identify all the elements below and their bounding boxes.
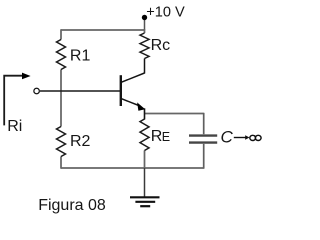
wire bottom rail [61,167,204,169]
resistor Rc [140,33,149,59]
capacitor C plates [189,136,217,143]
wire top rail [61,29,145,31]
wire Rc top lead [144,29,146,33]
label infinity symbol [250,135,261,140]
transistor Q1 [121,59,145,120]
label arrow of C to infinity [234,137,246,139]
wire base [40,90,121,92]
input arrowhead [22,73,31,80]
svg-text:R: R [151,128,163,145]
svg-text:E: E [162,130,170,144]
svg-text:Ri: Ri [7,118,22,135]
resistor R2 [57,127,66,157]
wire capacitor bottom lead [203,144,205,169]
input terminal circle [34,88,40,94]
wire R2 top lead [60,91,62,127]
emitter arrowhead [137,102,145,110]
wire R1 bottom lead to base node [60,70,62,92]
wire Vcc stub [144,17,146,30]
resistor R1 [57,40,66,70]
wire ground lead [144,168,146,197]
input bracket Ri [4,76,23,126]
wire RE bottom lead [144,151,146,169]
wire R2 bottom lead [60,157,62,169]
svg-text:+10 V: +10 V [146,4,185,20]
svg-text:R2: R2 [70,133,91,150]
svg-text:R1: R1 [70,48,91,65]
svg-text:Rc: Rc [151,37,171,54]
wire R1 top lead [60,29,62,39]
wire emitter node to capacitor [145,113,204,115]
svg-text:Figura 08: Figura 08 [38,197,106,214]
wire capacitor top lead [203,113,205,134]
svg-text:C: C [221,127,234,146]
ground [130,197,160,206]
Vcc dot [142,15,147,20]
resistor RE [140,119,149,151]
